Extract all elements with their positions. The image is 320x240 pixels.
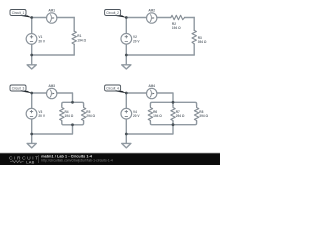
node: circuit 2 top junction (125, 16, 128, 19)
wire: top rail circuit 4 (126, 93, 173, 101)
node: circuit 1 top junction (30, 16, 33, 19)
resistor R4 (60, 106, 64, 121)
svg-text:Circuit_4: Circuit_4 (106, 86, 119, 90)
node label flag Circuit_4 (105, 85, 127, 93)
svg-text:LAB: LAB (26, 159, 34, 164)
svg-text:394 Ω: 394 Ω (198, 40, 207, 44)
voltage source V3 (26, 108, 37, 119)
ground circuit 3 (27, 134, 36, 148)
resistor R6 (148, 106, 152, 121)
wire: bottom feed circuit 4 (126, 125, 173, 134)
svg-text:20 V: 20 V (38, 39, 45, 43)
ammeter AM2 (147, 13, 157, 23)
wire: left branch circuit 1 (31, 18, 33, 56)
ground circuit 2 (122, 55, 131, 69)
svg-text:194 Ω: 194 Ω (153, 114, 162, 118)
node label flag Circuit_1 (10, 10, 32, 18)
ground circuit 1 (27, 55, 36, 69)
footer separator (38, 155, 40, 163)
svg-text:AM1: AM1 (48, 8, 55, 12)
svg-text:20 V: 20 V (38, 114, 45, 118)
svg-text:194 Ω: 194 Ω (172, 26, 181, 30)
wire: right branch circuit 2 (193, 18, 195, 56)
voltage source V1 (26, 34, 37, 45)
node label flag Circuit_2 (105, 10, 127, 18)
wire: bottom feed circuit 3 (32, 125, 73, 134)
ammeter AM1 (47, 13, 57, 23)
wire: left branch circuit 2 (125, 18, 127, 56)
wire: top rail circuit 2 (126, 17, 194, 19)
wire: parallel box top rail circuit 4 (150, 102, 196, 106)
node: circuit 4 ground junction (125, 133, 128, 136)
footer logo resistor zigzag (10, 161, 24, 163)
wire: parallel box top rail circuit 3 (62, 102, 84, 106)
wire: middle column stubs circuit 4 (172, 102, 174, 124)
svg-text:AM3: AM3 (48, 84, 55, 88)
ground circuit 4 (122, 134, 131, 148)
node: circuit 4 top junction (125, 92, 128, 95)
svg-text:AM4: AM4 (148, 84, 155, 88)
resistor R7 (171, 106, 175, 121)
resistor R2 (171, 15, 185, 19)
svg-text:Circuit_1: Circuit_1 (12, 11, 25, 15)
resistor R1 (72, 31, 76, 44)
node label flag Circuit_3 (10, 85, 32, 93)
svg-text:CIRCUIT: CIRCUIT (9, 155, 40, 161)
voltage source V2 (121, 33, 132, 44)
svg-text:http://circuitlab.com/c/bwjs6u: http://circuitlab.com/c/bwjs6u7/lab-1-ci… (41, 159, 113, 163)
node: circuit 4 box bottom junction (172, 123, 175, 126)
wire: top rail circuit 1 (32, 17, 74, 19)
node: circuit 3 box bottom junction (71, 123, 74, 126)
svg-text:20 V: 20 V (133, 39, 140, 43)
wire: parallel box bottom rail circuit 4 (150, 121, 196, 125)
footer bar (0, 152, 223, 155)
wire: parallel box bottom rail circuit 3 (62, 121, 84, 125)
node: circuit 2 ground junction (125, 54, 128, 57)
resistor R3 (192, 30, 196, 44)
wire: top rail circuit 3 (32, 93, 73, 101)
svg-text:AM2: AM2 (148, 8, 155, 12)
wire: left branch circuit 4 (125, 93, 127, 134)
svg-text:Circuit_3: Circuit_3 (12, 86, 25, 90)
node: circuit 1 ground junction (30, 54, 33, 57)
svg-text:194 Ω: 194 Ω (65, 114, 74, 118)
svg-text:394 Ω: 394 Ω (199, 114, 208, 118)
wire: bottom rail circuit 2 (126, 54, 194, 56)
svg-text:294 Ω: 294 Ω (176, 114, 185, 118)
node: circuit 3 top junction (30, 92, 33, 95)
node: circuit 3 ground junction (30, 133, 33, 136)
resistor R8 (194, 106, 198, 121)
wire: right branch circuit 1 (73, 18, 75, 56)
ammeter AM3 (47, 88, 57, 98)
wire: left branch circuit 3 (31, 93, 33, 134)
node: circuit 3 box top junction (71, 101, 74, 104)
svg-text:294 Ω: 294 Ω (86, 114, 95, 118)
voltage source V4 (121, 108, 132, 119)
ammeter AM4 (147, 88, 157, 98)
resistor R5 (81, 106, 85, 121)
svg-text:194 Ω: 194 Ω (77, 38, 86, 42)
svg-text:20 V: 20 V (133, 114, 140, 118)
svg-text:Circuit_2: Circuit_2 (106, 11, 119, 15)
wire: bottom rail circuit 1 (32, 54, 74, 56)
node: circuit 4 box top junction (172, 101, 175, 104)
